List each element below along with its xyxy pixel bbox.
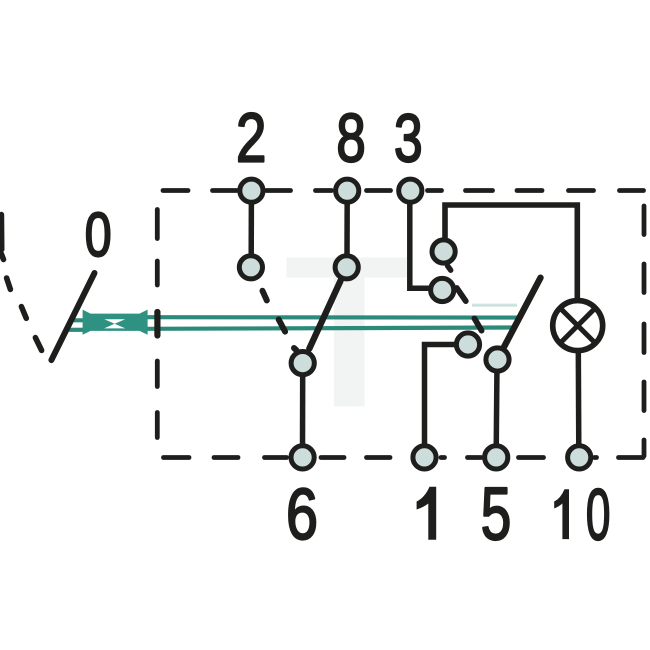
label 10 xyxy=(554,489,569,539)
pivot contact 6 xyxy=(291,352,314,375)
enclosure bottom border (dashed) xyxy=(164,455,644,460)
contact 5-upper xyxy=(486,348,509,371)
external lever position 0 (solid) xyxy=(51,273,94,360)
contact C1 tail xyxy=(448,266,451,270)
terminal 5 xyxy=(485,446,508,469)
enclosure left border dash over actuator xyxy=(154,312,160,336)
lever 2-contact to pivot6 (dashed) xyxy=(263,291,297,350)
svg-text:2: 2 xyxy=(236,99,266,177)
terminal 10 xyxy=(568,446,591,469)
contact 2-lower xyxy=(239,256,262,279)
enclosure left border (dashed) xyxy=(155,210,160,438)
label 1 xyxy=(417,487,437,540)
contact C2 xyxy=(431,278,454,301)
wire pivot to terminal6 xyxy=(300,368,306,452)
wire terminal1 to contact xyxy=(425,345,461,453)
wire terminal3 to contact C2 xyxy=(410,196,433,288)
external lever alternate position (dashed) xyxy=(1,254,41,351)
lever C2 to contact1 (broken) xyxy=(457,288,482,331)
contact 8-lower xyxy=(335,256,358,279)
lever 8-contact to pivot6 (solid) xyxy=(309,281,340,349)
wire lamp to terminal10 xyxy=(576,348,582,452)
slider detent mark (white bowtie) xyxy=(104,319,125,328)
contact C1 xyxy=(432,240,455,263)
terminal 1 xyxy=(413,446,436,469)
terminal 3 xyxy=(399,179,422,202)
svg-text:0: 0 xyxy=(85,200,112,269)
terminal 2 xyxy=(240,179,263,202)
contact 1-upper xyxy=(456,333,479,356)
actuator rail bottom (teal) xyxy=(146,328,513,329)
terminal 8 xyxy=(336,179,359,202)
external lever position dash (top-left edge) xyxy=(0,215,4,250)
terminal 6 xyxy=(291,446,314,469)
svg-text:8: 8 xyxy=(336,100,365,176)
svg-text:5: 5 xyxy=(481,472,512,555)
enclosure top border (dashed) xyxy=(163,188,644,193)
actuator bar ghost line (faint teal) xyxy=(472,304,517,307)
lever contact5 (solid, open) xyxy=(503,278,541,349)
enclosure right border (dashed) xyxy=(642,206,647,456)
lamp L xyxy=(553,301,603,351)
svg-text:0: 0 xyxy=(586,474,611,555)
wire contact C1 to lamp xyxy=(445,205,577,302)
wire terminal2 to contact xyxy=(248,196,254,258)
actuator slider block (teal) xyxy=(83,310,148,335)
actuator rail top (teal) xyxy=(146,315,517,319)
svg-text:3: 3 xyxy=(394,99,423,176)
actuator rail stub top-left (teal) xyxy=(70,318,85,322)
wire terminal8 to contact xyxy=(344,196,350,258)
actuator rail stub bottom-left (teal) xyxy=(69,328,84,332)
wire contact to terminal5 xyxy=(493,364,499,452)
watermark T xyxy=(287,258,408,407)
svg-text:6: 6 xyxy=(286,474,318,555)
